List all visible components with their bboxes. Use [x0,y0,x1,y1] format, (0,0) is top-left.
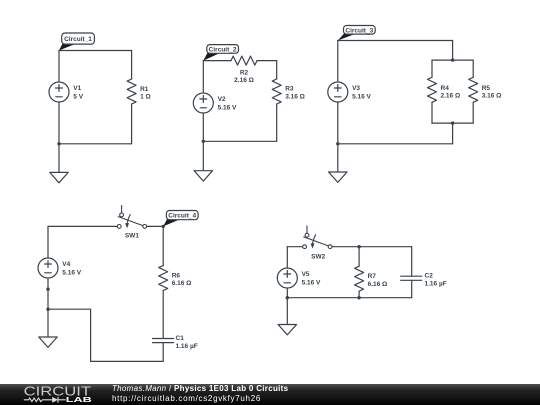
svg-text:R7: R7 [368,273,377,280]
svg-text:5.16 V: 5.16 V [352,93,371,100]
wire left lower circuit4 [47,278,49,337]
svg-text:2.16 Ω: 2.16 Ω [441,93,461,100]
svg-text:Circuit_2: Circuit_2 [209,47,237,54]
svg-text:1.16 µF: 1.16 µF [425,281,447,288]
svg-text:R3: R3 [285,86,294,93]
circuitlab logo [21,384,101,405]
junction node branch circuit4 [46,308,49,311]
wire R4 rail upper [431,60,433,77]
svg-text:V1: V1 [73,85,81,92]
svg-text:C1: C1 [176,335,185,342]
wire R4 rail lower [431,102,433,123]
svg-text:Circuit_1: Circuit_1 [64,36,92,43]
wire left upper circuit1 [58,51,60,83]
voltage source V3 [328,82,372,102]
node label Circuit_1 [59,33,94,51]
wire top-right circuit2 [257,60,277,62]
node label Circuit_2 [203,45,238,61]
wire left upper circuit4 [47,226,49,258]
node label Circuit_3 [338,26,375,41]
wire branch step circuit4 [48,309,163,361]
resistor R5 [469,77,502,102]
junction node V4 bottom [46,288,49,291]
svg-text:3.16 Ω: 3.16 Ω [285,93,305,100]
svg-text:5.16 V: 5.16 V [302,279,321,286]
resistor R7 [355,266,388,291]
wire left upper circuit3 [337,41,339,83]
voltage source V2 [193,93,237,113]
ground circuit5 [278,325,296,335]
junction node circuit2 [202,140,205,143]
resistor R4 [428,77,461,102]
wire right upper circuit1 [131,51,133,80]
voltage source V5 [277,268,321,288]
wire right lower circuit2 [276,104,278,141]
wire ground stub circuit2 [202,141,204,170]
svg-text:1.16 µF: 1.16 µF [176,343,198,350]
switch SW1 [117,206,146,240]
wire right middle circuit4 [162,291,164,339]
resistor R3 [272,79,305,104]
wire left lower circuit3 [337,102,339,144]
svg-text:R1: R1 [140,86,149,93]
wire left lower circuit2 [202,113,204,141]
wire C2 upper circuit5 [411,247,413,277]
wire C2 lower circuit5 [411,280,413,297]
footer bar [0,384,540,405]
capacitor C1 [153,335,198,350]
wire ground stub circuit3 [337,144,339,172]
junction node circuit1 [57,142,60,145]
svg-text:V5: V5 [302,271,310,278]
junction node bottom circuit3 [336,142,339,145]
switch SW2 [303,226,332,261]
wire feed down circuit3 [452,41,454,61]
wire ground stub circuit1 [58,144,60,173]
resistor R1 [127,79,151,104]
wire R7 upper circuit5 [358,247,360,267]
ground circuit3 [329,172,347,182]
wire bottom circuit5 [287,297,411,299]
wire top-right circuit5 [332,246,412,248]
svg-text:R4: R4 [441,85,450,92]
svg-text:R6: R6 [172,272,181,279]
svg-text:R2: R2 [240,69,249,76]
wire top-left circuit5 [287,246,304,248]
wire bottom bar circuit3 [432,122,473,124]
svg-text:V3: V3 [352,85,360,92]
junction node bottom bar circuit3 [451,121,454,124]
junction node V5 bottom [286,296,289,299]
wire top-left circuit2 [203,60,231,62]
wire R7 lower circuit5 [358,291,360,298]
credit text [112,384,288,403]
wire feed down2 circuit3 [452,123,454,144]
svg-text:6.16 Ω: 6.16 Ω [368,281,388,288]
wire right upper circuit4 [162,226,164,265]
wire ground stub circuit5 [286,298,288,325]
svg-text:SW2: SW2 [311,254,325,261]
ground circuit4 [39,337,57,347]
svg-text:C2: C2 [425,273,434,280]
wire top circuit1 [59,50,132,52]
junction node circuit4 top right [162,225,165,228]
voltage source V1 [49,82,84,102]
wire R5 rail lower [472,102,474,123]
wire right upper circuit2 [276,61,278,79]
capacitor C2 [401,273,447,288]
wire left lower circuit5 [286,288,288,298]
resistor R6 [159,266,192,291]
wire left upper circuit5 [286,247,288,268]
svg-text:6.16 Ω: 6.16 Ω [172,280,192,287]
wire right lower circuit1 [131,104,133,144]
wire bottom circuit2 [203,140,276,142]
svg-text:LAB: LAB [66,396,92,404]
junction node R7 bottom [357,296,360,299]
svg-text:5 V: 5 V [73,93,83,100]
svg-text:R5: R5 [482,85,491,92]
wire top circuit3 [338,40,453,42]
voltage source V4 [38,258,82,278]
wire bottom circuit3 [338,143,453,145]
wire top-left circuit4 [48,225,119,227]
svg-text:2.16 Ω: 2.16 Ω [234,77,254,84]
svg-text:3.16 Ω: 3.16 Ω [482,93,502,100]
svg-text:SW1: SW1 [125,233,139,240]
node label Circuit_4 [163,211,198,227]
svg-text:5.16 V: 5.16 V [218,104,237,111]
wire left upper circuit2 [202,61,204,93]
svg-text:5.16 V: 5.16 V [62,269,81,276]
ground circuit1 [50,172,68,182]
wire bottom circuit1 [59,143,132,145]
wire left lower circuit1 [58,102,60,144]
wire R5 rail upper [472,60,474,77]
resistor R2 [231,56,257,84]
svg-text:V4: V4 [62,261,70,268]
ground circuit2 [194,171,212,181]
junction node top circuit3 [451,58,454,61]
svg-text:Circuit_3: Circuit_3 [345,27,373,34]
junction node R7 top [357,245,360,248]
svg-text:Circuit_4: Circuit_4 [168,213,196,220]
svg-text:V2: V2 [218,96,226,103]
svg-text:1 Ω: 1 Ω [140,94,151,101]
wire top-right circuit4 [145,225,164,227]
wire top bar circuit3 [432,59,473,61]
